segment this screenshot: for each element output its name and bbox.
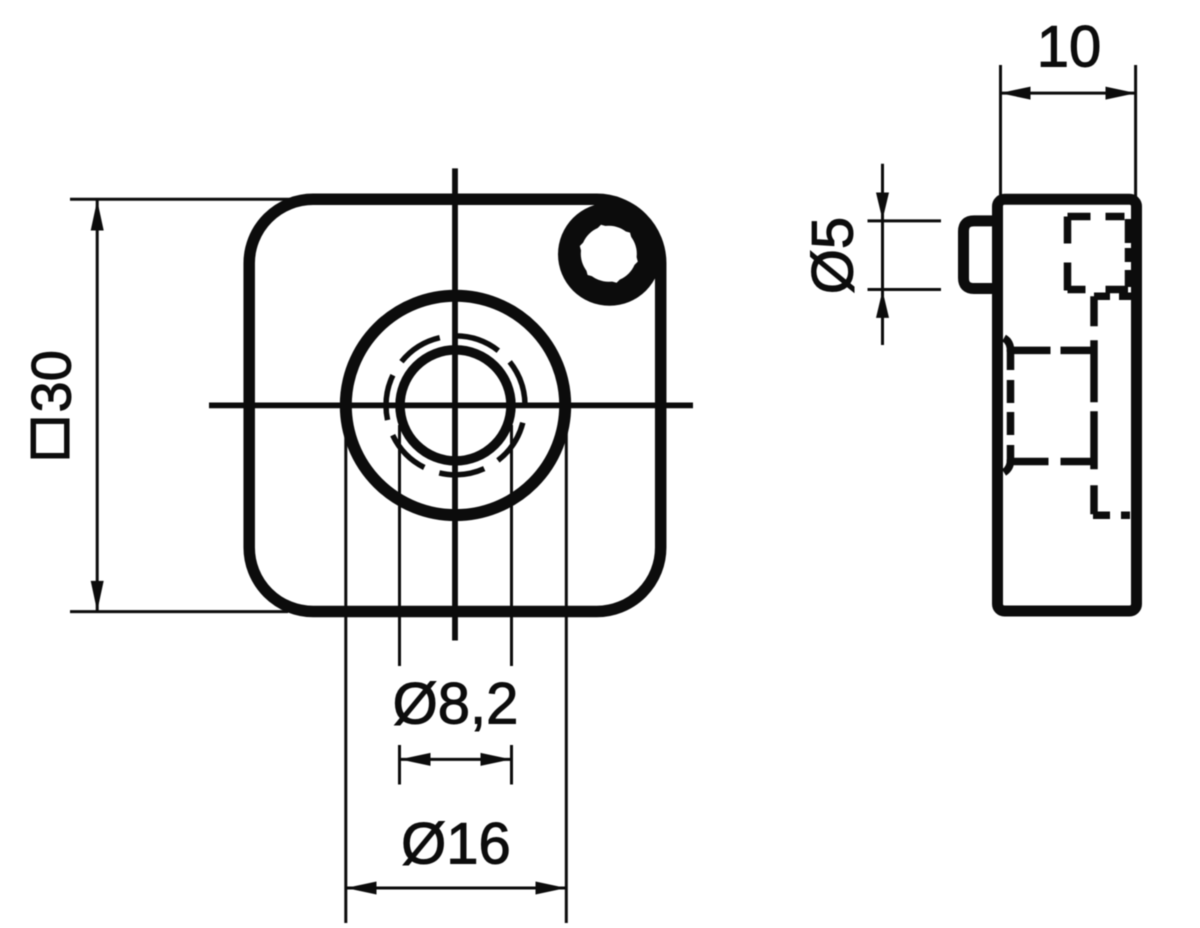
corner hole ring (counterbored hole, filled annulus) xyxy=(558,203,661,306)
dimension dia5: bottom arrow (pointing up) xyxy=(876,291,889,318)
dia 8.2: dimension line xyxy=(400,758,511,761)
dia 8.2: left extension line lower part xyxy=(398,745,401,785)
dia 16: right extension line xyxy=(565,430,568,923)
dimension 10: left arrow xyxy=(1000,87,1031,100)
dia 8.2: right arrow xyxy=(481,753,512,766)
hidden lines: counterbore dia16 bottom horizontal xyxy=(1093,512,1132,520)
svg-text:Ø8,2: Ø8,2 xyxy=(393,672,519,737)
corner hole inner hex-like white opening xyxy=(580,225,638,283)
dashed circle (hidden chamfer) xyxy=(386,336,525,475)
vertical centerline of front view xyxy=(452,168,458,640)
hidden lines: corner hole top horizontal xyxy=(1068,213,1132,221)
hidden lines: hole dia 8.2 bottom horizontal xyxy=(1011,458,1093,466)
svg-text:10: 10 xyxy=(1037,15,1102,80)
dia 8.2: right extension line upper part xyxy=(510,425,513,666)
dia 8.2: left extension line upper part xyxy=(398,425,401,666)
svg-text:30: 30 xyxy=(20,350,83,412)
hidden lines: chamfer hook top xyxy=(1004,338,1011,352)
svg-text:Ø16: Ø16 xyxy=(401,812,511,877)
dimension dia5: vertical line xyxy=(881,164,884,345)
dimension sq30: dimension line xyxy=(96,200,99,611)
dimension dia5: top arrow (pointing down) xyxy=(876,193,889,220)
dimension 10: right extension line xyxy=(1134,65,1137,199)
dia 16: dimension line xyxy=(346,887,566,890)
dia 16: left arrow xyxy=(346,882,377,895)
dimension 10: dimension line xyxy=(1000,92,1136,95)
hidden lines: corner hole bottom horizontal xyxy=(1068,286,1129,294)
horizontal centerline of front view xyxy=(209,402,693,408)
dia 16: right arrow xyxy=(536,882,567,895)
dimension 10: left extension line xyxy=(999,65,1002,199)
dia 8.2: left arrow xyxy=(400,753,431,766)
big circle (counterbore dia 16) xyxy=(346,296,565,515)
hidden lines: counterbore dia16 vertical xyxy=(1090,296,1098,514)
dimension sq30: bottom extension line xyxy=(70,610,288,613)
dia 16: left extension line xyxy=(344,430,347,923)
front view body outline (rounded square 30x30) xyxy=(249,199,661,611)
inner hole circle (dia 8.2) xyxy=(400,350,511,461)
dia 8.2: right extension line lower part xyxy=(510,745,513,785)
dimension sq30: square symbol xyxy=(33,421,67,456)
dimension dia5: top extension line xyxy=(868,219,942,222)
dimension dia5: text (rotated) xyxy=(801,217,866,294)
dimension sq30: top arrow xyxy=(91,200,104,230)
dimension sq30: text 30 (rotated) xyxy=(20,350,83,412)
hidden lines: counterbore dia16 top horizontal xyxy=(1094,293,1132,301)
side view boss tab (dia 5 projection) xyxy=(964,221,998,289)
hidden lines: hole dia 8.2 left vertical xyxy=(1007,349,1015,463)
hidden lines: corner hole (top right), left vertical xyxy=(1064,217,1072,292)
dimension sq30: bottom arrow xyxy=(91,581,104,611)
dimension dia5: bottom extension line xyxy=(868,288,942,291)
hidden lines: chamfer hook bottom xyxy=(1004,459,1011,473)
hidden lines: hole dia 8.2 top horizontal xyxy=(1011,347,1092,355)
svg-text:Ø5: Ø5 xyxy=(801,217,866,294)
dimension sq30: top extension line xyxy=(70,198,292,201)
hidden lines: corner hole right vertical xyxy=(1125,219,1133,289)
dimension 10: right arrow xyxy=(1106,87,1137,100)
side view body outline xyxy=(998,199,1137,611)
